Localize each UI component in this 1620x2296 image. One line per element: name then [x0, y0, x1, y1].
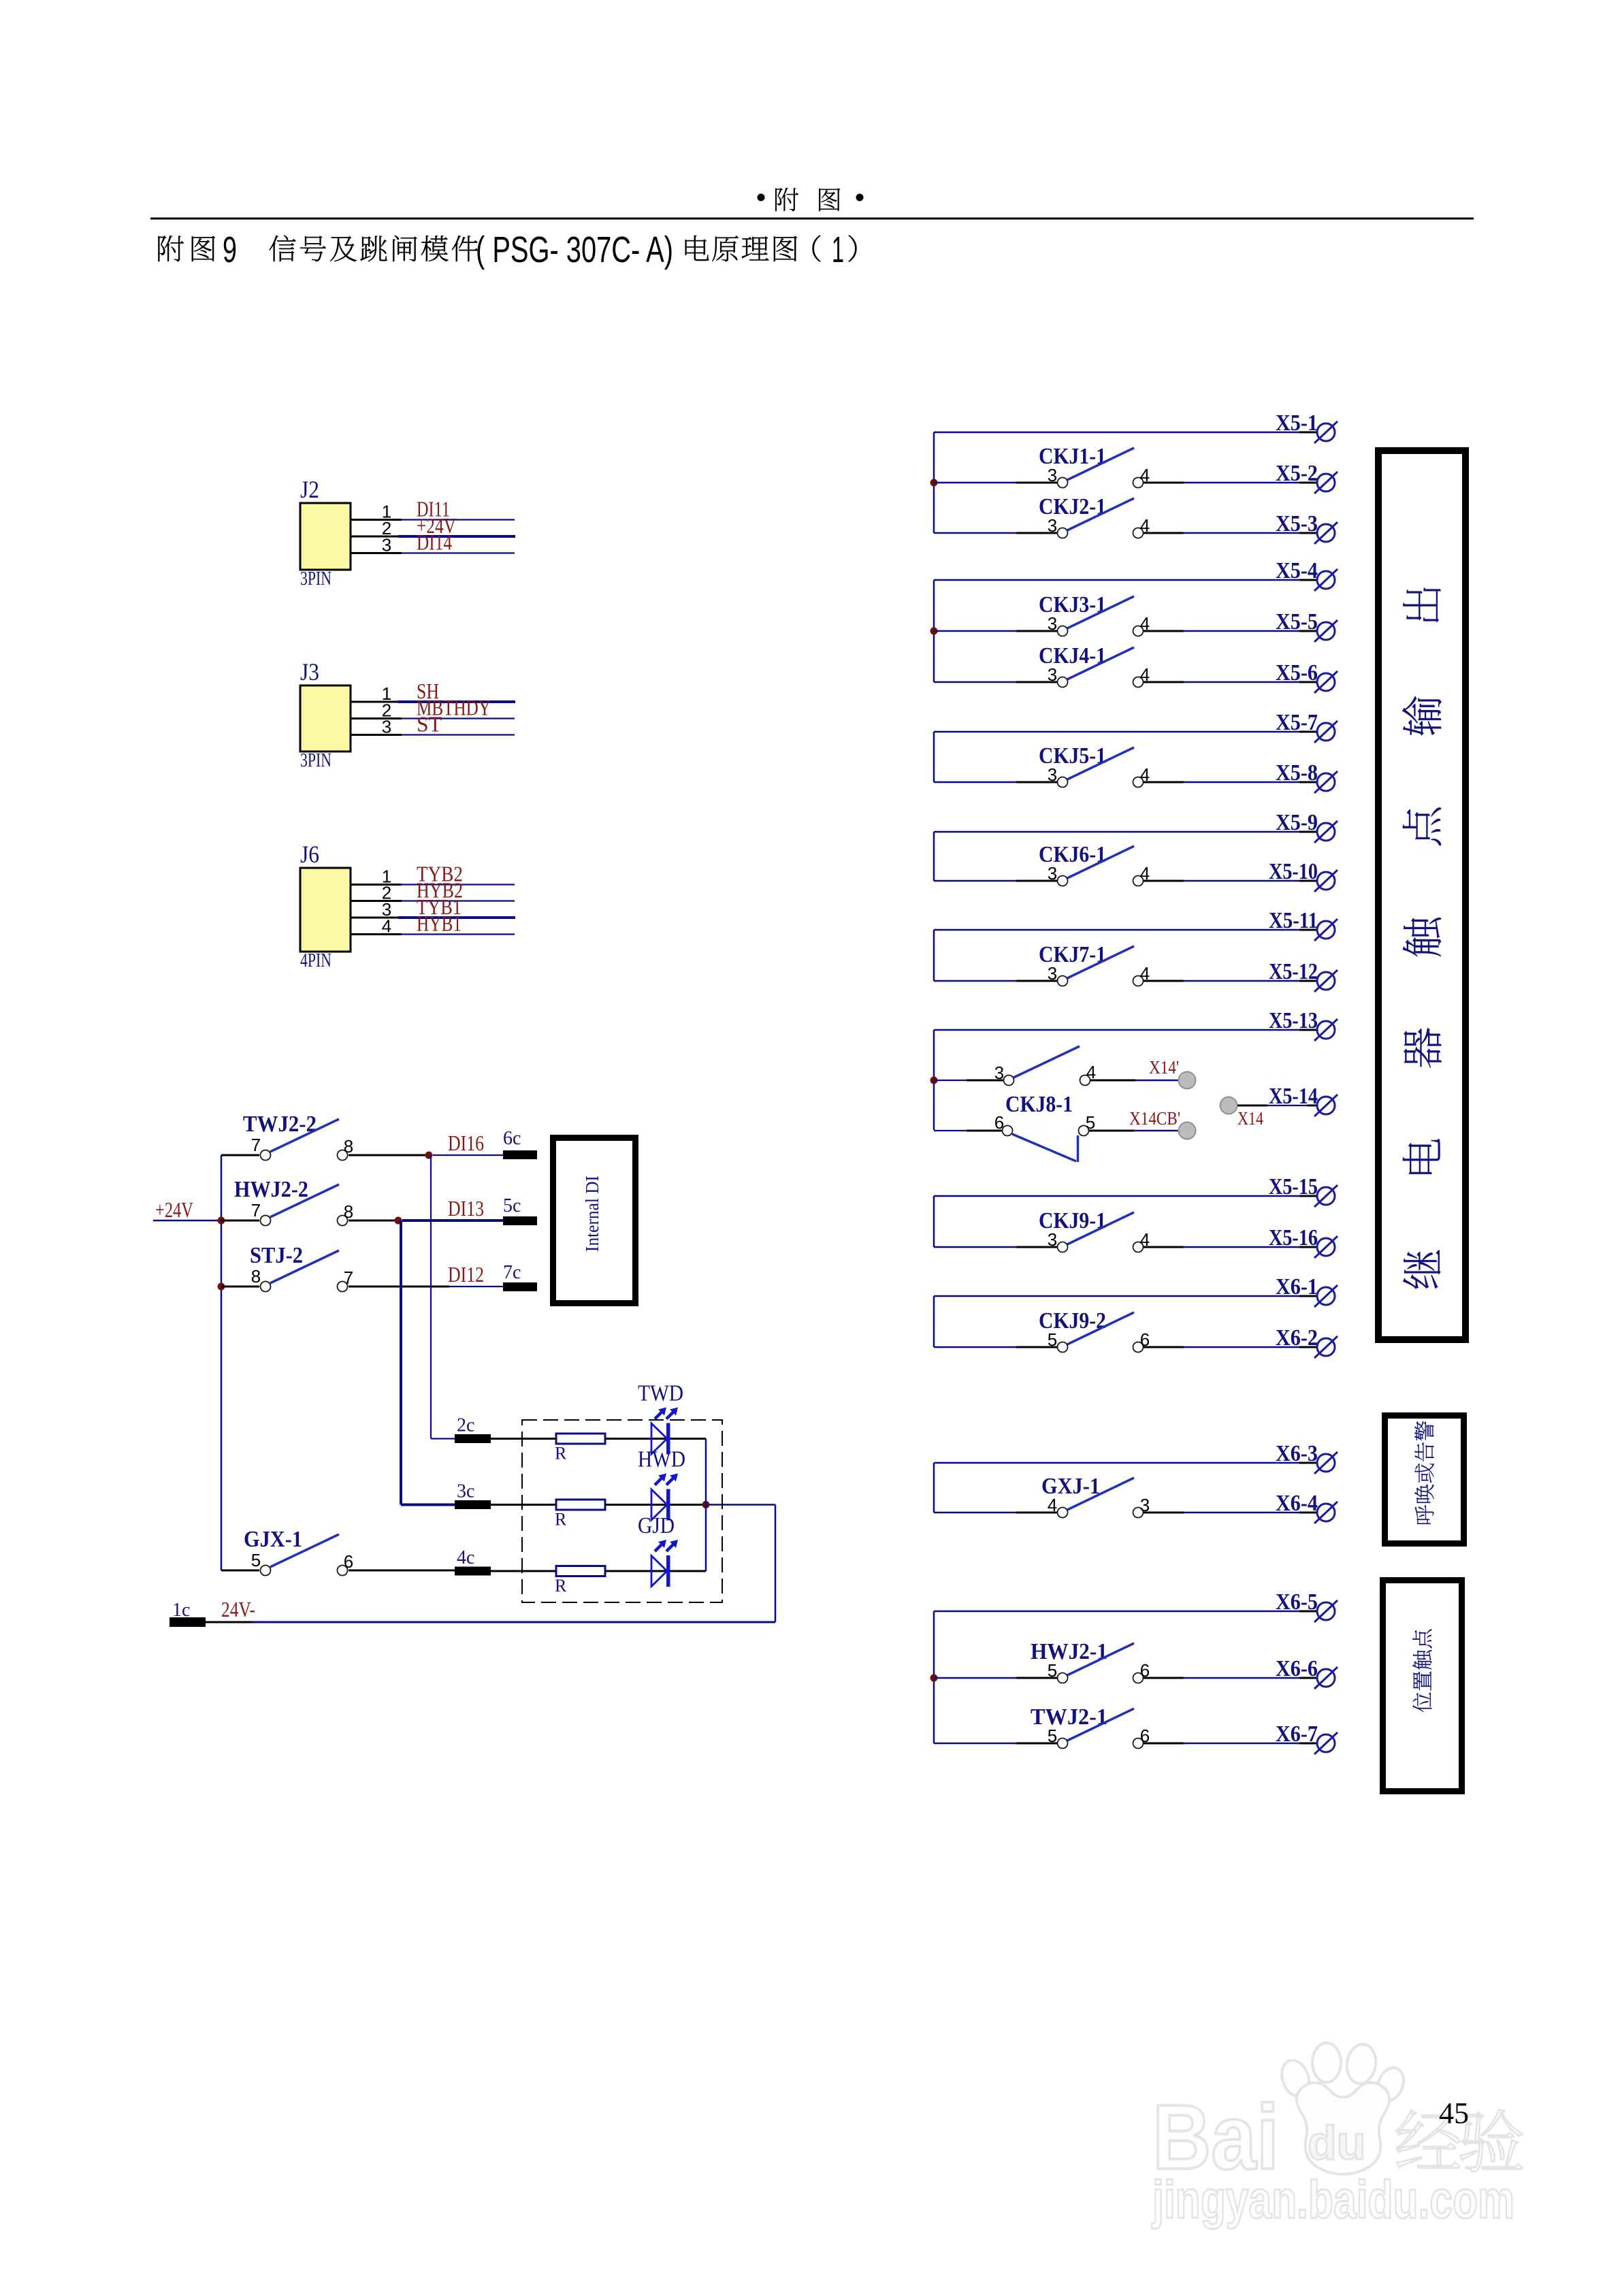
- svg-text:R: R: [555, 1510, 567, 1530]
- svg-text:6: 6: [344, 1551, 353, 1572]
- svg-text:X14: X14: [1237, 1108, 1263, 1129]
- svg-text:X5-1: X5-1: [1276, 410, 1318, 436]
- svg-text:X5-11: X5-11: [1269, 908, 1318, 933]
- svg-text:jingyan.baidu.com: jingyan.baidu.com: [1151, 2169, 1514, 2229]
- svg-text:X6-7: X6-7: [1276, 1721, 1318, 1747]
- svg-text:DI16: DI16: [448, 1131, 484, 1155]
- svg-text:5: 5: [1048, 1660, 1057, 1681]
- svg-text:7: 7: [251, 1200, 261, 1220]
- svg-text:3: 3: [994, 1063, 1004, 1083]
- svg-text:J6: J6: [300, 841, 319, 868]
- svg-text:8: 8: [251, 1266, 261, 1287]
- svg-text:DI14: DI14: [417, 530, 452, 555]
- svg-text:5: 5: [1048, 1329, 1057, 1350]
- svg-text:4: 4: [1048, 1495, 1057, 1515]
- svg-text:+24V: +24V: [155, 1197, 193, 1222]
- svg-text:4: 4: [382, 916, 391, 937]
- svg-text:3PIN: 3PIN: [300, 750, 331, 771]
- svg-text:HWJ2-2: HWJ2-2: [234, 1177, 308, 1202]
- svg-text:1: 1: [832, 229, 844, 270]
- svg-text:5: 5: [251, 1550, 261, 1570]
- svg-text:8: 8: [344, 1201, 353, 1222]
- svg-text:Internal DI: Internal DI: [582, 1176, 602, 1252]
- svg-text:DI12: DI12: [448, 1262, 484, 1287]
- svg-text:4PIN: 4PIN: [300, 950, 331, 971]
- svg-text:X6-2: X6-2: [1276, 1325, 1318, 1351]
- svg-text:X5-13: X5-13: [1269, 1008, 1318, 1033]
- svg-text:J2: J2: [300, 476, 319, 503]
- svg-text:3: 3: [1048, 664, 1057, 685]
- svg-text:X6-5: X6-5: [1276, 1589, 1318, 1615]
- svg-text:3: 3: [1048, 863, 1057, 884]
- svg-text:du: du: [1308, 2116, 1366, 2169]
- svg-text:CKJ8-1: CKJ8-1: [1005, 1092, 1073, 1117]
- svg-text:X5-16: X5-16: [1269, 1225, 1318, 1250]
- svg-text:3: 3: [1048, 515, 1057, 536]
- svg-text:8: 8: [344, 1136, 353, 1157]
- svg-text:R: R: [555, 1444, 567, 1464]
- svg-text:5c: 5c: [503, 1195, 521, 1216]
- svg-text:3: 3: [1048, 963, 1057, 984]
- svg-text:4c: 4c: [457, 1547, 474, 1568]
- svg-text:STJ-2: STJ-2: [250, 1243, 303, 1268]
- svg-text:X6-4: X6-4: [1276, 1491, 1318, 1516]
- svg-text:GJX-1: GJX-1: [244, 1527, 302, 1552]
- svg-text:3: 3: [1048, 613, 1057, 634]
- svg-text:ST: ST: [417, 712, 442, 737]
- svg-text:X14CB': X14CB': [1129, 1108, 1180, 1129]
- svg-text:2c: 2c: [457, 1415, 474, 1436]
- svg-text:5: 5: [1048, 1726, 1057, 1746]
- svg-text:3: 3: [1048, 1229, 1057, 1250]
- svg-text:7: 7: [344, 1267, 353, 1288]
- svg-text:X5-3: X5-3: [1276, 511, 1318, 536]
- svg-text:X5-2: X5-2: [1276, 461, 1318, 486]
- svg-text:3c: 3c: [457, 1481, 474, 1502]
- svg-text:3: 3: [1048, 465, 1057, 485]
- svg-text:3: 3: [382, 717, 391, 737]
- svg-text:HYB1: HYB1: [417, 911, 461, 936]
- svg-text:X14': X14': [1149, 1057, 1179, 1078]
- svg-text:GJD: GJD: [638, 1513, 675, 1538]
- svg-text:HWD: HWD: [638, 1447, 685, 1472]
- svg-text:X5-8: X5-8: [1276, 760, 1318, 786]
- svg-text:X6-6: X6-6: [1276, 1656, 1318, 1681]
- svg-text:3: 3: [382, 535, 391, 555]
- svg-text:X5-9: X5-9: [1276, 810, 1318, 835]
- svg-text:3: 3: [1048, 764, 1057, 785]
- svg-text:X5-7: X5-7: [1276, 710, 1318, 735]
- svg-text:J3: J3: [300, 658, 319, 685]
- svg-text:X5-15: X5-15: [1269, 1174, 1318, 1199]
- svg-text:DI13: DI13: [448, 1196, 484, 1220]
- svg-text:X5-6: X5-6: [1276, 660, 1318, 685]
- svg-text:X5-12: X5-12: [1269, 959, 1318, 984]
- svg-text:X5-14: X5-14: [1269, 1084, 1318, 1109]
- svg-text:TWJ2-2: TWJ2-2: [243, 1112, 317, 1137]
- svg-text:6c: 6c: [503, 1128, 521, 1149]
- svg-text:7: 7: [251, 1135, 261, 1155]
- svg-text:X6-3: X6-3: [1276, 1441, 1318, 1466]
- svg-text:( PSG- 307C- A): ( PSG- 307C- A): [476, 229, 673, 270]
- svg-text:24V-: 24V-: [221, 1597, 255, 1621]
- svg-text:X5-4: X5-4: [1276, 558, 1318, 583]
- svg-text:6: 6: [994, 1112, 1004, 1133]
- svg-text:X6-1: X6-1: [1276, 1274, 1318, 1299]
- svg-text:X5-5: X5-5: [1276, 609, 1318, 634]
- svg-text:X5-10: X5-10: [1269, 859, 1318, 884]
- svg-text:9: 9: [223, 229, 237, 270]
- svg-text:45: 45: [1439, 2097, 1469, 2130]
- svg-text:7c: 7c: [503, 1262, 521, 1283]
- svg-text:3PIN: 3PIN: [300, 568, 331, 589]
- svg-text:TWD: TWD: [638, 1381, 683, 1406]
- svg-text:R: R: [555, 1576, 567, 1596]
